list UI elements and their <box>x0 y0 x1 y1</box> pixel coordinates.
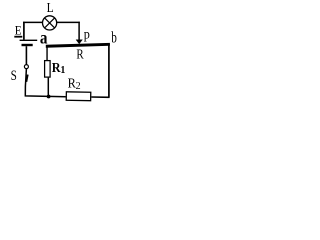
wire top-left horizontal from battery corner to lamp <box>23 21 42 23</box>
svg-text:E: E <box>15 23 22 37</box>
node b label <box>111 29 117 46</box>
wire R1 bottom lead to junction <box>47 78 49 97</box>
svg-text:a: a <box>40 27 48 47</box>
svg-text:R: R <box>52 60 61 75</box>
svg-text:p: p <box>84 27 90 42</box>
node a label <box>40 27 48 47</box>
wire vertical down to wiper arrow <box>78 22 80 41</box>
wire top horizontal from lamp to right corner <box>57 21 80 23</box>
svg-text:L: L <box>47 0 54 15</box>
svg-text:S: S <box>11 68 17 84</box>
wire right vertical up to rheostat end <box>108 44 110 97</box>
wire switch down to bottom-left corner <box>25 69 66 97</box>
lamp L <box>43 0 57 30</box>
svg-text:1: 1 <box>60 65 65 76</box>
wiper arrow p onto rheostat <box>76 27 90 44</box>
junction dot <box>47 95 51 99</box>
svg-text:2: 2 <box>76 81 81 92</box>
svg-text:R: R <box>76 48 84 63</box>
svg-text:b: b <box>111 29 117 46</box>
switch S <box>11 65 29 84</box>
rheostat R (solid bar, slightly tilted as in scan) <box>46 43 110 63</box>
resistor R2 <box>66 76 91 101</box>
battery E <box>14 23 37 46</box>
wire battery to switch <box>25 46 27 64</box>
resistor R1 <box>45 60 66 77</box>
wire left vertical from top wire down to battery <box>23 22 25 40</box>
wire bottom from R2 to right corner <box>91 96 109 98</box>
wire from rheostat left end down to R1 <box>46 47 48 60</box>
